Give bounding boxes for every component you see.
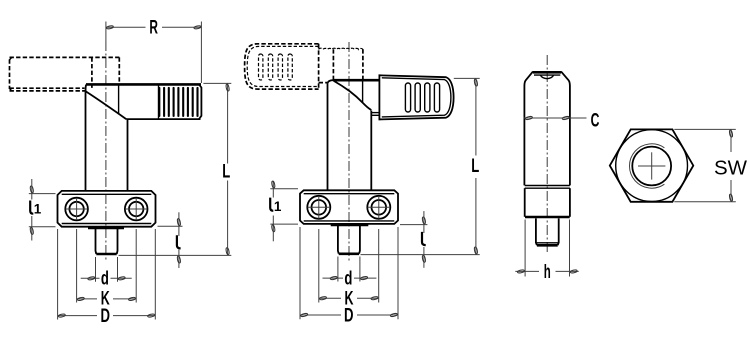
svg-text:R: R: [149, 18, 158, 39]
dimension K view1: [77, 229, 137, 310]
svg-text:L: L: [222, 162, 230, 183]
hole right view2: [367, 196, 390, 219]
svg-text:d: d: [344, 269, 352, 290]
svg-text:L: L: [471, 156, 479, 177]
stud view3: [536, 218, 559, 245]
boss under flange view2: [331, 224, 369, 227]
svg-text:1: 1: [274, 199, 282, 214]
grip view2: [379, 75, 453, 119]
svg-text:D: D: [344, 305, 354, 326]
dimension l1 view1: [29, 179, 56, 241]
hole right view1: [125, 198, 148, 221]
grip slots view2: [405, 83, 439, 112]
dimension C view3: [523, 111, 599, 132]
dimension D view1: [58, 229, 156, 327]
svg-text:h: h: [544, 262, 551, 283]
knurl view1: [159, 84, 202, 119]
dimension SW view4: [674, 129, 747, 201]
centerline view2: [348, 42, 350, 262]
dimension L view1: [119, 83, 232, 255]
boss under flange view1: [88, 227, 124, 230]
dimension l view2: [400, 211, 427, 268]
stud view1: [96, 227, 118, 254]
chamfer circle view4: [616, 130, 688, 202]
centerline view1: [105, 22, 107, 263]
handle arm view1: [86, 84, 201, 119]
svg-text:d: d: [101, 269, 109, 290]
dimension l1 view2: [270, 181, 298, 242]
svg-text:1: 1: [34, 202, 42, 217]
centerline view3: [546, 55, 548, 253]
groove view3: [525, 186, 570, 189]
svg-text:C: C: [591, 111, 600, 132]
svg-text:SW: SW: [714, 157, 748, 180]
dashed grip slots view2: [259, 54, 293, 80]
hexagon view4: [610, 129, 694, 201]
hole left view2: [307, 196, 330, 219]
dimension d view2: [323, 257, 377, 290]
body top view3: [524, 71, 570, 185]
stud view2: [338, 224, 360, 254]
dimension d view1: [81, 257, 132, 290]
dashed sleeve view2: [319, 48, 363, 82]
hole left view1: [65, 198, 88, 221]
body view2: [328, 81, 380, 190]
dimension K view2: [319, 229, 379, 309]
dimension R: [106, 18, 201, 83]
boss top view2: [328, 80, 380, 102]
dimension h view3: [515, 220, 578, 283]
svg-text:D: D: [100, 306, 110, 327]
crosshair view4: [638, 152, 665, 179]
thread arc view4: [629, 144, 664, 188]
dimension L view2: [361, 78, 480, 254]
body view1: [86, 91, 128, 191]
body lower view3: [525, 188, 570, 217]
handle dashed (alternate position) view1: [10, 57, 120, 91]
flange view1: [58, 191, 156, 227]
hole circle view4: [632, 147, 671, 186]
dimension l view1: [158, 212, 183, 268]
dimension D view2: [300, 227, 398, 326]
dashed grip view2: [245, 44, 319, 89]
flange view2: [300, 190, 398, 224]
